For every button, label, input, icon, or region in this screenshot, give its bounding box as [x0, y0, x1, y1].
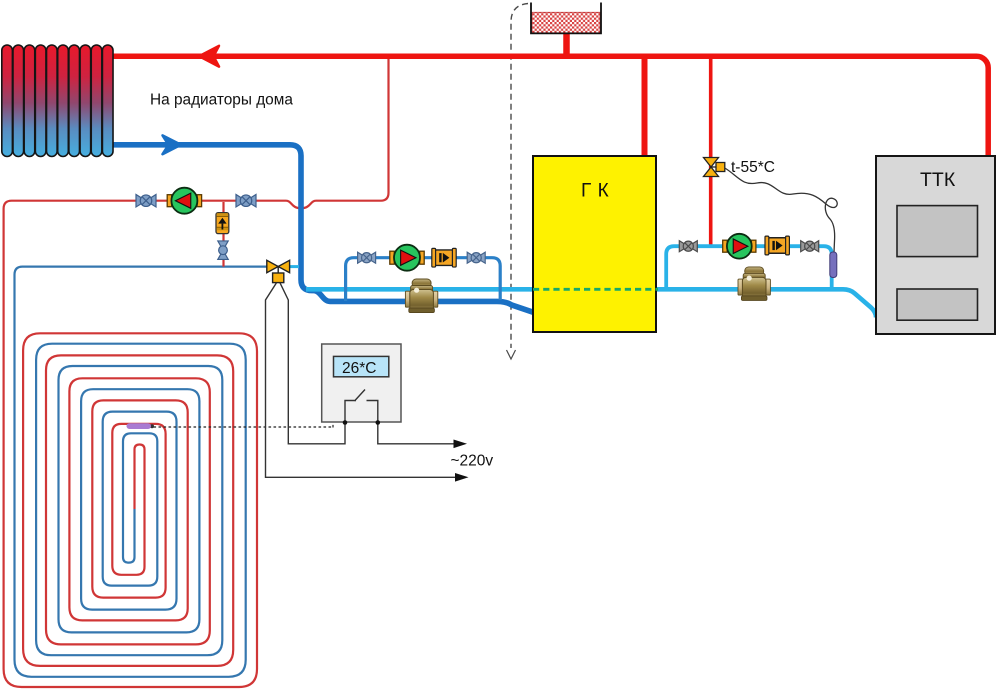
svg-text:ТТК: ТТК	[920, 169, 956, 191]
svg-text:t-55*C: t-55*C	[731, 159, 775, 176]
svg-text:На радиаторы дома: На радиаторы дома	[150, 91, 293, 108]
svg-text:Г К: Г К	[581, 181, 609, 202]
svg-text:26*C: 26*C	[342, 360, 376, 377]
svg-text:~220v: ~220v	[451, 453, 494, 470]
